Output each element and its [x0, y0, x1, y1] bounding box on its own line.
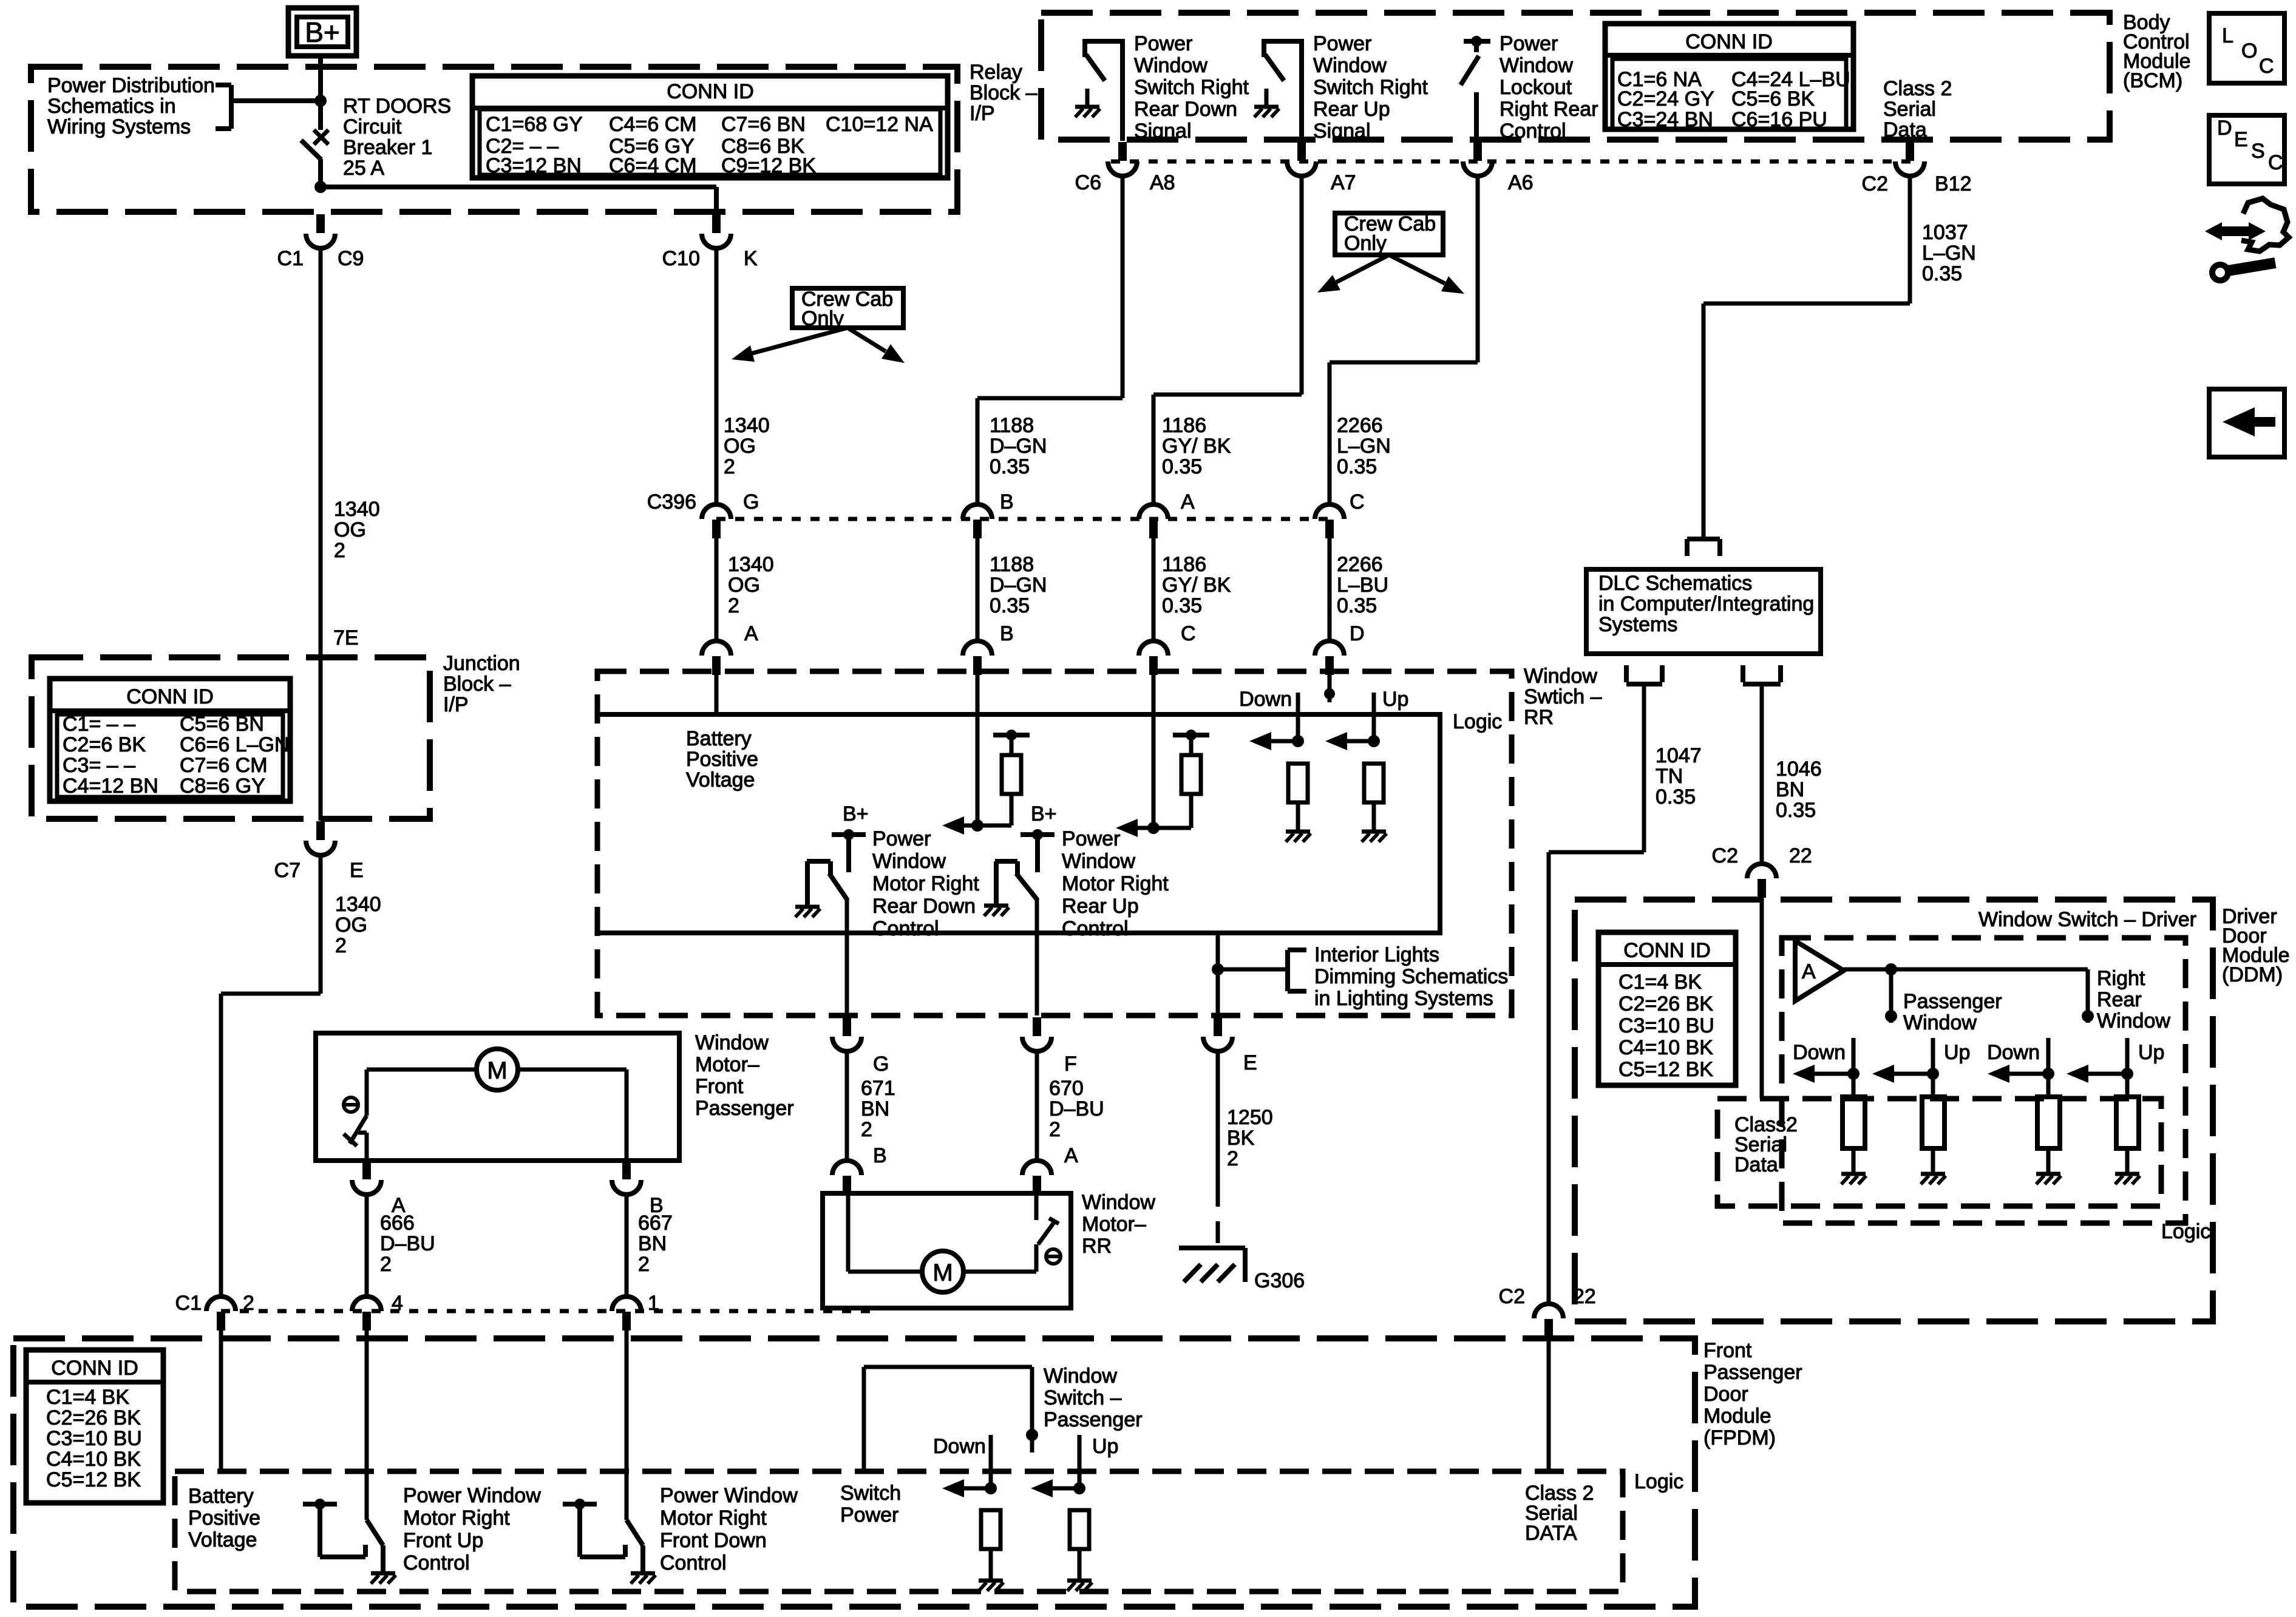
node junction — [1847, 1068, 1860, 1080]
svg-text:Window: Window — [1044, 1364, 1117, 1388]
connector row2 pin A — [702, 641, 731, 656]
svg-text:Power Window: Power Window — [660, 1484, 798, 1507]
svg-text:2: 2 — [243, 1292, 254, 1315]
ground G306 — [1179, 1246, 1245, 1250]
svg-text:GY/ BK: GY/ BK — [1162, 435, 1231, 458]
svg-text:Logic: Logic — [2161, 1220, 2210, 1243]
ground down sense — [1286, 830, 1310, 834]
connector A6 — [1473, 142, 1482, 161]
svg-text:Rear Down: Rear Down — [1134, 98, 1237, 121]
wire 671 — [845, 1049, 849, 1159]
svg-text:Up: Up — [1092, 1435, 1118, 1458]
svg-text:1340: 1340 — [728, 553, 774, 576]
connector C396 pin G — [702, 504, 731, 519]
node up sense junction — [1368, 735, 1380, 747]
svg-text:1186: 1186 — [1162, 414, 1206, 437]
arrow wiper — [1805, 1072, 1853, 1076]
switch blade to ground — [627, 1520, 643, 1545]
down sense wire — [1296, 693, 1300, 741]
connector F below RR switch — [1033, 1017, 1041, 1036]
wire battery positive into FPDM — [219, 1331, 223, 1471]
svg-text:O: O — [2241, 39, 2257, 63]
svg-text:0.35: 0.35 — [1656, 785, 1696, 808]
svg-text:C6=4 CM: C6=4 CM — [609, 154, 697, 177]
svg-text:CONN ID: CONN ID — [667, 80, 754, 103]
svg-text:Power: Power — [1062, 827, 1120, 850]
svg-text:C: C — [1181, 622, 1196, 645]
svg-text:2: 2 — [728, 594, 739, 617]
svg-text:2: 2 — [638, 1253, 650, 1276]
connector C1 pin 2 — [206, 1297, 236, 1311]
svg-text:1340: 1340 — [334, 498, 380, 521]
pivot stub — [1030, 1435, 1034, 1453]
switch ground — [371, 1571, 395, 1576]
arrow rear up drive — [1153, 826, 1191, 830]
wire front up control into FPDM — [365, 1331, 369, 1520]
svg-text:RT DOORS: RT DOORS — [343, 95, 451, 118]
svg-text:B: B — [1000, 622, 1014, 645]
wire B into logic box rear down drive — [976, 671, 980, 825]
arrow up contact — [1043, 1486, 1079, 1491]
contact wire Down — [1852, 1038, 1856, 1074]
node window switch passenger pivot — [1026, 1429, 1038, 1441]
svg-text:TN: TN — [1656, 765, 1683, 788]
svg-text:C4=12 BN: C4=12 BN — [63, 775, 158, 798]
arrow up sense — [1337, 739, 1374, 744]
svg-text:C4=10 BK: C4=10 BK — [46, 1448, 141, 1471]
connector pin 4 — [352, 1297, 381, 1311]
svg-text:I/P: I/P — [443, 693, 469, 716]
Crew Cab Only callout box 1 — [792, 288, 903, 328]
Body Control Module dashed box — [1041, 13, 2110, 140]
crew cab arrow to 1188 wire — [847, 328, 886, 351]
svg-text:C: C — [2259, 55, 2274, 78]
svg-text:0.35: 0.35 — [1922, 262, 1962, 285]
wire A8 to row1 B with jog — [1121, 174, 1125, 398]
switch rear down output bracket — [807, 859, 830, 864]
svg-text:Right Rear: Right Rear — [1500, 98, 1598, 121]
svg-text:C4=10 BK: C4=10 BK — [1618, 1036, 1713, 1059]
svg-text:CONN ID: CONN ID — [51, 1357, 138, 1380]
wire A into logic box battery positive — [715, 671, 719, 714]
DLC top prong — [1687, 537, 1720, 541]
DLC bottom prong right — [1741, 665, 1745, 682]
arrow down sense — [1262, 739, 1298, 744]
window motor front passenger box — [316, 1033, 679, 1161]
svg-text:OG: OG — [335, 914, 367, 937]
connector C2/22 DDM — [1747, 864, 1776, 878]
svg-text:Signal: Signal — [1134, 120, 1192, 143]
svg-text:Down: Down — [1793, 1041, 1846, 1064]
wire A6 to row1 C with jog — [1476, 174, 1480, 362]
svg-text:1250: 1250 — [1227, 1106, 1273, 1129]
svg-text:C2=26 BK: C2=26 BK — [46, 1406, 141, 1429]
connector B window motor FP — [622, 1161, 631, 1179]
svg-text:Voltage: Voltage — [686, 768, 755, 792]
svg-text:Door: Door — [1703, 1383, 1748, 1406]
DLC bottom prong left — [1624, 665, 1629, 682]
node rear down drive junction — [971, 819, 983, 832]
FPDM outer dashed box — [13, 1338, 1695, 1607]
node right rear window common end — [2082, 1010, 2094, 1022]
svg-text:in Lighting Systems: in Lighting Systems — [1314, 987, 1493, 1010]
svg-text:D: D — [2217, 117, 2232, 140]
ground — [1921, 1172, 1945, 1176]
switch blade to ground — [367, 1520, 383, 1545]
svg-text:G: G — [873, 1053, 889, 1076]
svg-text:667: 667 — [638, 1212, 673, 1235]
contact wire Up — [1931, 1038, 1935, 1074]
svg-text:Right: Right — [2097, 967, 2145, 990]
svg-text:C6=16 PU: C6=16 PU — [1731, 108, 1827, 131]
svg-text:C2=26 BK: C2=26 BK — [1618, 992, 1713, 1015]
svg-text:2: 2 — [1049, 1118, 1061, 1141]
dotted connector row C396 — [716, 517, 1330, 521]
svg-text:C3=10 BU: C3=10 BU — [1618, 1014, 1714, 1037]
svg-text:C7=6 CM: C7=6 CM — [180, 754, 268, 777]
node down contact junction — [985, 1482, 997, 1494]
svg-text:Motor–: Motor– — [1082, 1213, 1146, 1236]
node passenger window common end — [1885, 1010, 1897, 1022]
svg-text:L–BU: L–BU — [1337, 574, 1388, 597]
wrench and arrows icon — [2241, 198, 2289, 251]
svg-text:I/P: I/P — [970, 102, 995, 125]
wire jog to battery input — [221, 992, 321, 996]
svg-text:666: 666 — [380, 1212, 415, 1235]
wire 1046 BN — [1760, 686, 1764, 864]
svg-text:BN: BN — [861, 1097, 889, 1120]
svg-text:Control: Control — [872, 917, 939, 940]
svg-text:C10: C10 — [662, 247, 700, 270]
svg-text:A6: A6 — [1508, 171, 1533, 194]
svg-text:Window: Window — [1082, 1191, 1155, 1214]
svg-text:Battery: Battery — [188, 1485, 254, 1508]
svg-text:0.35: 0.35 — [1776, 799, 1816, 822]
wire bus to C10 drop — [321, 185, 716, 189]
svg-text:Breaker 1: Breaker 1 — [343, 136, 432, 159]
arrow wiper — [2000, 1072, 2048, 1076]
wire front down control into FPDM — [625, 1331, 629, 1520]
ground — [2115, 1172, 2139, 1176]
resistor pullup rear down — [1010, 793, 1014, 825]
switch ground stub — [1265, 89, 1269, 106]
power source B+ box — [288, 8, 356, 56]
svg-text:Only: Only — [1344, 232, 1387, 255]
svg-text:in Computer/Integrating: in Computer/Integrating — [1598, 592, 1814, 615]
svg-text:C: C — [1350, 490, 1365, 514]
wire G output — [845, 899, 849, 1015]
svg-text:C: C — [2268, 151, 2283, 174]
svg-text:Window: Window — [1524, 665, 1597, 688]
svg-text:C2: C2 — [1499, 1285, 1525, 1308]
right rear window common — [2086, 969, 2090, 1023]
svg-text:A: A — [744, 622, 758, 645]
svg-text:1046: 1046 — [1776, 758, 1822, 781]
svg-text:C5=12 BK: C5=12 BK — [1618, 1058, 1713, 1081]
motor FP thermal breaker symbol — [344, 1097, 358, 1112]
ground — [2036, 1172, 2060, 1176]
wire 1186 between rows — [1152, 538, 1156, 642]
svg-text:Interior Lights: Interior Lights — [1314, 943, 1439, 966]
svg-text:CONN ID: CONN ID — [1685, 30, 1773, 53]
svg-text:Motor Right: Motor Right — [1062, 872, 1169, 895]
node bus junction — [314, 181, 327, 193]
svg-text:Rear Down: Rear Down — [872, 895, 976, 918]
Relay Block I/P dashed box — [31, 67, 957, 212]
svg-text:Motor Right: Motor Right — [403, 1507, 510, 1530]
svg-text:Positive: Positive — [188, 1507, 260, 1530]
motor M RR — [922, 1251, 963, 1292]
svg-text:C7: C7 — [274, 859, 301, 882]
circuit breaker CB1 contact X — [314, 130, 328, 144]
ground rear down switch — [795, 905, 820, 909]
connector C6/A8 — [1118, 142, 1127, 161]
B+ contact T-bar at x=955 — [563, 1502, 597, 1507]
arrow down contact — [954, 1486, 991, 1491]
wire E interior lights feed — [1216, 933, 1220, 1015]
svg-text:2: 2 — [335, 934, 347, 957]
svg-text:Swtich –: Swtich – — [1524, 685, 1602, 708]
svg-text:G: G — [743, 490, 759, 514]
svg-text:D–BU: D–BU — [380, 1232, 435, 1255]
wire C10 to C396 — [715, 246, 719, 506]
wire 2266 between rows — [1328, 538, 1332, 642]
svg-text:670: 670 — [1049, 1077, 1084, 1100]
passenger window common stub — [1889, 969, 1894, 1023]
svg-text:C3= – –: C3= – – — [63, 754, 135, 777]
svg-text:Serial: Serial — [1883, 98, 1936, 121]
node junction — [2042, 1068, 2054, 1080]
svg-text:Power Window: Power Window — [403, 1484, 541, 1507]
resistor down sense — [1288, 764, 1308, 802]
CONN ID table junction block — [50, 679, 290, 801]
svg-text:C3=12 BN: C3=12 BN — [486, 154, 582, 177]
B+ contact T-bar at x=527 — [303, 1502, 337, 1507]
B+ T contact right — [1021, 832, 1055, 837]
resistor pullup rear up — [1189, 794, 1194, 828]
switch rear up output bracket — [995, 859, 1017, 864]
svg-text:C4=6 CM: C4=6 CM — [609, 113, 697, 136]
svg-text:Window: Window — [1903, 1011, 1977, 1034]
svg-text:C5=6 BN: C5=6 BN — [180, 713, 264, 736]
ground down passenger — [979, 1579, 1003, 1583]
switch output wire — [1120, 41, 1125, 141]
node passenger window tap — [1885, 963, 1897, 975]
wire 670 — [1035, 1049, 1039, 1159]
svg-text:Lockout: Lockout — [1500, 76, 1572, 99]
svg-text:B12: B12 — [1935, 172, 1972, 195]
svg-text:C2: C2 — [1862, 172, 1888, 195]
svg-text:C8=6 GY: C8=6 GY — [180, 775, 265, 798]
svg-text:M: M — [932, 1259, 953, 1286]
svg-text:OG: OG — [728, 574, 760, 597]
svg-text:Passenger: Passenger — [695, 1097, 794, 1120]
node junction at reference tap — [314, 95, 327, 107]
svg-text:1186: 1186 — [1162, 553, 1206, 576]
svg-text:Up: Up — [2138, 1041, 2164, 1064]
svg-text:0.35: 0.35 — [1337, 594, 1377, 617]
svg-text:L–GN: L–GN — [1337, 435, 1391, 458]
wire breaker to bus — [318, 159, 323, 187]
switch blade and bracket at x=2144 — [1262, 39, 1266, 57]
svg-text:0.35: 0.35 — [990, 455, 1030, 478]
connector C2/22 FPDM — [1534, 1304, 1563, 1318]
motor RR thermal breaker symbol — [1046, 1249, 1061, 1264]
svg-text:BN: BN — [638, 1232, 667, 1255]
wire C into logic box rear up drive — [1152, 671, 1156, 828]
resistor up sense — [1364, 764, 1384, 802]
svg-text:Front: Front — [695, 1075, 744, 1098]
resistor up passenger — [1070, 1510, 1089, 1549]
CONN ID table DDM — [1598, 932, 1736, 1085]
label Class 2 Serial DATA wire entry — [1547, 1331, 1551, 1471]
svg-text:K: K — [744, 247, 758, 270]
svg-text:Positive: Positive — [686, 748, 758, 771]
svg-text:C1=68 GY: C1=68 GY — [486, 113, 583, 136]
motor RR internal wires — [846, 1193, 851, 1272]
svg-text:Passenger: Passenger — [1903, 990, 2002, 1013]
svg-text:C1: C1 — [277, 247, 304, 270]
amplifier triangle A — [1795, 941, 1844, 1001]
svg-text:B+: B+ — [305, 16, 340, 48]
svg-text:Up: Up — [1382, 688, 1408, 711]
svg-text:A: A — [1181, 490, 1195, 514]
connector A window motor RR — [1022, 1161, 1051, 1175]
node rear up drive junction — [1147, 822, 1160, 834]
contact hook — [577, 1536, 582, 1557]
svg-text:C5=12 BK: C5=12 BK — [46, 1468, 141, 1491]
svg-text:2: 2 — [1227, 1147, 1238, 1170]
svg-text:F: F — [1064, 1053, 1077, 1076]
svg-text:BK: BK — [1227, 1127, 1255, 1150]
motor M front passenger — [477, 1049, 518, 1090]
svg-text:CONN ID: CONN ID — [1623, 939, 1711, 962]
svg-text:Control: Control — [403, 1551, 470, 1575]
window switch passenger feed bracket — [864, 1365, 1032, 1369]
svg-text:Signal: Signal — [1313, 120, 1371, 143]
svg-text:Front Up: Front Up — [403, 1529, 483, 1552]
svg-text:Down: Down — [1987, 1041, 2040, 1064]
svg-text:Systems: Systems — [1598, 613, 1677, 636]
wire amp to right rear window corner — [1844, 968, 2088, 972]
svg-text:G306: G306 — [1254, 1269, 1305, 1292]
wire D ends at node — [1328, 671, 1332, 702]
svg-text:C9: C9 — [338, 247, 364, 270]
svg-text:E: E — [2234, 128, 2248, 151]
Crew Cab Only callout box 2 — [1335, 213, 1443, 255]
svg-text:RR: RR — [1082, 1235, 1112, 1258]
connector row2 pin B — [963, 641, 992, 656]
node junction — [1927, 1068, 1939, 1080]
motor FP internal wires — [367, 1068, 477, 1072]
node down sense junction — [1292, 735, 1304, 747]
svg-text:Down: Down — [1239, 688, 1292, 711]
svg-text:Control: Control — [1500, 120, 1566, 143]
switch rear down blade — [828, 861, 833, 875]
svg-text:C396: C396 — [647, 490, 696, 514]
svg-text:Data: Data — [1883, 118, 1927, 141]
svg-text:Down: Down — [933, 1435, 986, 1458]
FPDM inner logic dashed box — [175, 1471, 1623, 1592]
svg-text:A: A — [1802, 960, 1816, 983]
contact wire Up — [2125, 1038, 2130, 1074]
svg-text:Switch Right: Switch Right — [1313, 76, 1428, 99]
motor FP switch blade — [350, 1116, 367, 1144]
svg-text:Window Switch – Driver: Window Switch – Driver — [1978, 908, 2196, 931]
svg-text:A8: A8 — [1150, 171, 1175, 194]
wire 1037 from BCM C2/B12 — [1908, 174, 1912, 303]
svg-text:Window: Window — [1134, 54, 1207, 77]
connector G below RR switch — [843, 1017, 851, 1036]
logic solid box RR switch — [597, 714, 1440, 933]
svg-text:Only: Only — [801, 307, 844, 330]
svg-text:Motor–: Motor– — [695, 1053, 759, 1076]
svg-text:Logic: Logic — [1634, 1470, 1683, 1493]
svg-text:1047: 1047 — [1656, 744, 1702, 767]
svg-text:Power: Power — [1134, 32, 1192, 55]
svg-text:OG: OG — [334, 518, 366, 541]
svg-text:C9=12 BK: C9=12 BK — [721, 154, 816, 177]
ground rear up switch — [984, 904, 1008, 908]
resistor — [1852, 1074, 1856, 1097]
svg-text:Front Down: Front Down — [660, 1529, 767, 1552]
svg-text:Rear Up: Rear Up — [1313, 98, 1390, 121]
wire 1047 TN — [1642, 686, 1646, 852]
wire A7 to row1 A with jog — [1300, 174, 1304, 395]
svg-text:1340: 1340 — [724, 414, 770, 437]
svg-text:0.35: 0.35 — [1162, 455, 1202, 478]
dotted connector row under BCM — [1111, 160, 1912, 164]
connector row1 pin B — [963, 504, 992, 519]
svg-text:A: A — [1064, 1144, 1078, 1167]
svg-text:Control: Control — [660, 1551, 727, 1575]
svg-text:1188: 1188 — [990, 414, 1034, 437]
svg-text:D: D — [1350, 622, 1365, 645]
arrow rear down drive — [977, 824, 1011, 828]
svg-text:25 A: 25 A — [343, 157, 384, 180]
svg-text:0.35: 0.35 — [1337, 455, 1377, 478]
svg-text:OG: OG — [724, 435, 756, 458]
wire B+ to breaker — [318, 56, 323, 101]
svg-text:Window: Window — [872, 850, 946, 873]
wire 1250 solid part — [1216, 1049, 1220, 1184]
wire 667 — [625, 1193, 629, 1297]
svg-text:E: E — [350, 859, 364, 882]
svg-text:Power: Power — [872, 827, 931, 850]
svg-text:Battery: Battery — [686, 727, 752, 750]
svg-text:Block –: Block – — [970, 81, 1038, 104]
svg-text:1188: 1188 — [990, 553, 1034, 576]
node up contact junction — [1073, 1482, 1085, 1494]
CONN ID table relay block — [472, 76, 948, 178]
wire 666 — [365, 1193, 369, 1297]
svg-text:D–GN: D–GN — [990, 574, 1047, 597]
svg-text:RR: RR — [1524, 706, 1554, 729]
svg-text:(DDM): (DDM) — [2222, 963, 2283, 986]
wire tap to interior lights bracket — [1218, 968, 1288, 972]
svg-text:671: 671 — [861, 1077, 895, 1100]
svg-text:(BCM): (BCM) — [2123, 69, 2182, 92]
svg-text:0.35: 0.35 — [1162, 594, 1202, 617]
svg-text:2: 2 — [380, 1253, 392, 1276]
BCM lockout switch blade — [1461, 56, 1479, 85]
T contact above resistor rear down — [993, 733, 1030, 737]
connector E below RR switch — [1214, 1017, 1222, 1036]
connector C1/C9 at relay block — [316, 214, 325, 233]
svg-text:Window: Window — [2097, 1009, 2170, 1032]
node interior lights tap — [1212, 963, 1224, 975]
svg-text:0.35: 0.35 — [990, 594, 1030, 617]
